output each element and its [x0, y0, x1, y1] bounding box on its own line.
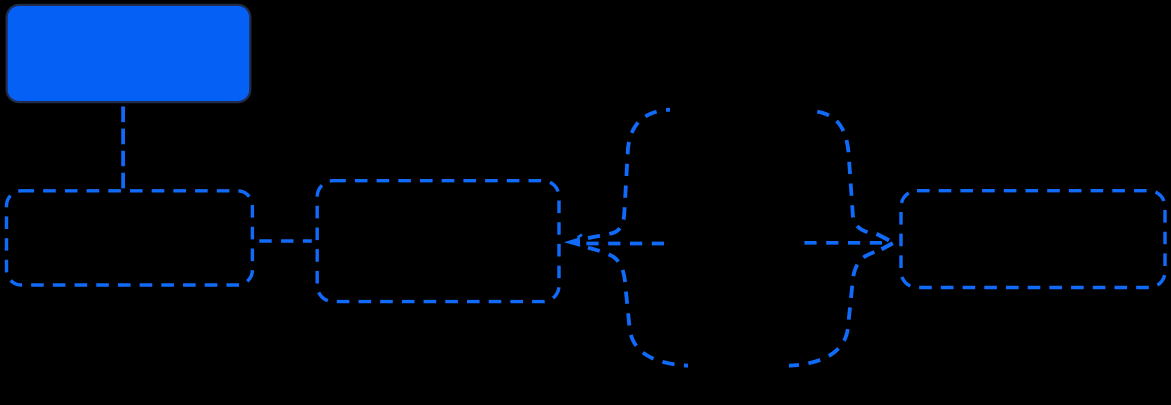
wire bottom node to node D (lower-right curve) — [789, 250, 879, 365]
wire bottom node to node B (lower-left curve) — [588, 248, 688, 366]
arrowhead into node B (filled, pointing left) — [564, 237, 580, 247]
wire top node to node B (upper-left curve) — [588, 110, 670, 239]
node START (solid blue box) — [7, 5, 251, 102]
wire START to node A (vertical dashed connector) — [121, 107, 125, 190]
wire middle node to node B (horizontal dashed) — [586, 242, 666, 246]
node B (dashed rounded box, middle) — [317, 181, 559, 302]
wire middle node to node D (horizontal dashed) — [804, 241, 882, 245]
wire node A to node B (horizontal dashed connector) — [259, 239, 312, 243]
arrowhead into node D (chevron, pointing right) — [877, 234, 890, 241]
node D (dashed rounded box, right) — [901, 191, 1165, 288]
wire top node to node D (upper-right curve) — [808, 111, 868, 233]
node A (dashed rounded box, bottom-left) — [7, 191, 253, 285]
